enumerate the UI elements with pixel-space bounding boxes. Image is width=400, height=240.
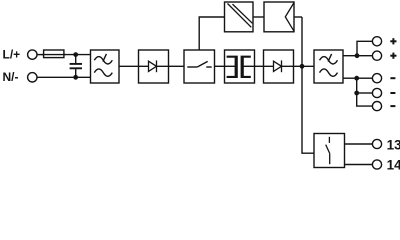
wire input filter to rectifier [119, 65, 139, 67]
junction plus bus [355, 53, 360, 58]
input filter block [91, 50, 120, 83]
terminal minus 1 [372, 74, 381, 83]
svg-text:13: 13 [387, 137, 400, 152]
label minus 3 [390, 105, 395, 107]
wire output filter plus [343, 55, 357, 57]
label plus 2 [390, 53, 396, 59]
wire control to riser [294, 16, 302, 18]
wire N terminal to input filter [37, 76, 91, 78]
control block DC/DC [225, 2, 254, 32]
wire relay output 13 [345, 143, 373, 145]
output rectifier diode block [264, 50, 294, 83]
label minus 1 [390, 77, 395, 79]
wire output filter minus [343, 77, 357, 79]
rectifier diode block [139, 50, 169, 83]
relay contact block [314, 134, 345, 168]
wire between control blocks [253, 16, 264, 18]
output filter block [314, 50, 343, 83]
terminal N/- [28, 73, 37, 82]
wire output rectifier to output filter [294, 65, 315, 67]
terminal minus 2 [372, 88, 381, 97]
terminal L/+ [28, 50, 37, 59]
svg-text:L/+: L/+ [3, 47, 21, 61]
label plus 1 [390, 38, 396, 44]
junction main line / feedback-relay riser [300, 64, 305, 69]
wire plus stub 2 [357, 55, 372, 57]
wire riser down to relay [302, 17, 314, 153]
label minus 2 [390, 92, 395, 94]
capacitor [70, 55, 82, 78]
wire switching stage to transformer [215, 65, 225, 67]
terminal plus 2 [372, 51, 381, 60]
svg-text:14: 14 [387, 158, 400, 170]
wire minus stub 1 [357, 77, 373, 79]
wire L terminal to fuse [37, 54, 44, 56]
wire fuse to input filter [64, 54, 91, 56]
wire rectifier to switching stage [169, 65, 185, 67]
terminal plus 1 [372, 37, 381, 46]
fuse [42, 50, 66, 58]
terminal 13 [372, 139, 381, 148]
junction L line [73, 52, 78, 57]
terminal minus 3 [372, 102, 381, 111]
junction minus bus 2 [354, 91, 359, 96]
terminal 14 [372, 160, 381, 169]
junction N line [73, 75, 78, 80]
control block amplifier [264, 2, 294, 32]
switching stage block [184, 50, 215, 83]
wire minus stub 2 [357, 92, 373, 94]
transformer block [225, 50, 255, 83]
junction minus bus 1 [354, 76, 359, 81]
wire minus bus [357, 78, 373, 106]
wire plus bus [357, 41, 372, 55]
svg-text:N/-: N/- [3, 70, 19, 84]
wire relay output 14 [345, 164, 373, 166]
wire transformer to output rectifier [255, 65, 264, 67]
wire feedback riser from switching stage [199, 17, 224, 50]
